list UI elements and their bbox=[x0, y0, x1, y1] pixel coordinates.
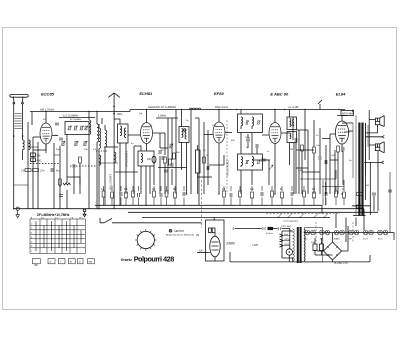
trimmer TRIM1 bbox=[68, 126, 72, 130]
junction node J13 bbox=[88, 111, 89, 112]
heater HEATER7 bbox=[349, 230, 354, 235]
svg-text:200V 4,2mA: 200V 4,2mA bbox=[215, 106, 229, 109]
trimmer TRIM4 bbox=[84, 126, 88, 130]
svg-text:4Ω: 4Ω bbox=[366, 185, 369, 187]
resistor mid1 bbox=[169, 159, 172, 165]
wire bbox=[74, 163, 80, 194]
capacitor CAPV5 bbox=[319, 156, 321, 160]
wire bbox=[197, 176, 212, 178]
capacitor left mid bbox=[73, 164, 75, 168]
junction node J10 bbox=[323, 217, 324, 218]
resistor RES2 bbox=[33, 169, 39, 172]
svg-text:230V BAT: 230V BAT bbox=[281, 225, 291, 228]
resistor RES21 bbox=[343, 192, 346, 198]
wire bbox=[209, 155, 224, 165]
svg-text:1M: 1M bbox=[196, 235, 199, 237]
psu enclosure box bbox=[305, 228, 323, 262]
svg-text:ECC: ECC bbox=[378, 239, 383, 241]
circled note bbox=[169, 230, 172, 233]
svg-text:EM80: EM80 bbox=[227, 242, 236, 246]
capacitor CAPV6 bbox=[325, 160, 327, 164]
dial circle bbox=[137, 231, 154, 248]
wire bbox=[54, 154, 60, 156]
resistor RES1 bbox=[25, 169, 31, 172]
heater HEATER1 bbox=[305, 230, 310, 235]
tube ECC85 bbox=[40, 123, 52, 144]
svg-text:250p: 250p bbox=[245, 137, 251, 139]
resistor RES3 bbox=[164, 157, 167, 163]
trimmer TRIM10 bbox=[257, 160, 260, 164]
output transformer primary winding bbox=[353, 115, 356, 215]
coil ant b bbox=[29, 140, 31, 150]
capacitor mid2 bbox=[164, 170, 168, 172]
junction node J23 bbox=[145, 205, 146, 206]
antenna coupling winding bbox=[15, 114, 22, 129]
resistor RES12 bbox=[174, 192, 177, 198]
resistor left mid bbox=[79, 157, 82, 163]
resistor RES9 bbox=[132, 191, 135, 197]
resistor RES8 bbox=[125, 192, 128, 198]
capacitor CAPV4 bbox=[207, 166, 209, 170]
junction node J14 bbox=[96, 111, 97, 112]
resistor RES6 bbox=[313, 147, 316, 153]
svg-text:AM 1,70mA: AM 1,70mA bbox=[40, 108, 54, 112]
wire out grid bbox=[300, 170, 344, 187]
resistor RES15 bbox=[251, 192, 254, 198]
speaker 2 bbox=[375, 144, 379, 151]
resistor chain middle with labels bbox=[102, 191, 105, 197]
capacitor CAPV8 bbox=[120, 192, 122, 196]
resistor RES5 bbox=[301, 145, 304, 151]
power transformer left winding bbox=[293, 229, 295, 261]
svg-text:ECH: ECH bbox=[363, 239, 368, 241]
wire bbox=[67, 177, 80, 194]
coil FM feed bbox=[114, 152, 116, 163]
oscillator box bbox=[138, 151, 154, 166]
switch bank bbox=[266, 213, 340, 215]
wire bbox=[14, 184, 28, 186]
wire bbox=[160, 147, 168, 149]
svg-text:Abgleichpunkt bei Mittelwelle: Abgleichpunkt bei Mittelwelle bbox=[166, 233, 195, 236]
svg-text:Polpourri 428: Polpourri 428 bbox=[134, 255, 175, 264]
capacitor CAPV7 bbox=[342, 147, 344, 151]
capacitor det b bbox=[256, 144, 258, 148]
capacitor CAPV9 bbox=[138, 193, 140, 197]
capacitor CAPH2 bbox=[59, 138, 63, 140]
heater HEATER12 bbox=[383, 230, 388, 235]
wire bbox=[330, 159, 338, 161]
IF can 4 bbox=[287, 117, 297, 130]
IF can 2 bbox=[179, 127, 189, 143]
capacitor det a bbox=[246, 139, 250, 141]
motor jack circle bbox=[286, 249, 292, 255]
trimmer TRIM3 bbox=[80, 126, 84, 130]
junction node J15 bbox=[45, 111, 46, 112]
bridge rectifier bbox=[324, 242, 342, 260]
junction node J24 bbox=[186, 193, 187, 194]
junction node J1 bbox=[146, 109, 147, 110]
choke coil on bus bbox=[190, 108, 201, 109]
svg-text:EL84: EL84 bbox=[336, 92, 346, 97]
capacitor CAPV11 bbox=[183, 192, 185, 196]
trimmer TRIM5 bbox=[74, 141, 78, 145]
trimmer TRIM8 bbox=[257, 121, 260, 125]
wire bus y205.3 bbox=[95, 204, 370, 207]
connector arrow 2 bbox=[364, 161, 384, 164]
component row drops bbox=[104, 197, 345, 205]
wire bbox=[262, 159, 270, 161]
coil ant a bbox=[23, 140, 25, 160]
svg-text:1M: 1M bbox=[152, 189, 155, 191]
svg-text:AMC: AMC bbox=[37, 160, 42, 163]
resistor RES13 bbox=[223, 191, 226, 197]
capacitor CAPV14 bbox=[291, 192, 293, 196]
svg-text:4m: 4m bbox=[56, 170, 59, 173]
junction node J18 bbox=[284, 109, 285, 110]
ground arrow near caption bbox=[83, 209, 86, 212]
cathode RC EL84 bbox=[337, 146, 340, 152]
resistor RES19 bbox=[313, 192, 316, 198]
svg-text:ECH81: ECH81 bbox=[139, 91, 153, 96]
heater HEATER11 bbox=[378, 230, 383, 235]
detector diode bbox=[262, 158, 265, 162]
wire bus y208.7 bbox=[13, 208, 364, 210]
diode symbols right of EABC80 bbox=[295, 138, 297, 142]
voltage selector chevrons bbox=[280, 234, 283, 247]
section divider dashed bbox=[201, 180, 203, 228]
small coil mid-left bbox=[63, 183, 71, 185]
fuse bbox=[268, 227, 274, 230]
tube ECH81 bbox=[141, 123, 153, 144]
capacitor CAPV13 bbox=[261, 192, 263, 196]
boxed label NFC bbox=[341, 111, 354, 116]
capacitor mid1 bbox=[162, 156, 164, 160]
svg-text:Tastenaggregat: Tastenaggregat bbox=[283, 220, 298, 223]
output transformer secondary bbox=[366, 123, 369, 175]
IF can 1 bbox=[118, 124, 129, 143]
junction node J3 bbox=[274, 109, 275, 110]
junction node J21 bbox=[98, 208, 99, 209]
component cluster boxes left bbox=[31, 153, 36, 156]
svg-text:17m: 17m bbox=[40, 170, 45, 173]
svg-text:Graetz: Graetz bbox=[121, 258, 132, 262]
capacitor CAPV3 bbox=[171, 163, 173, 167]
capacitor CAPV2 bbox=[159, 150, 161, 154]
resistor RES17 bbox=[281, 192, 284, 198]
heater HEATER8 bbox=[354, 230, 359, 235]
capacitor CAPV10 bbox=[160, 193, 162, 197]
ground terminal left bbox=[16, 207, 20, 218]
section divider dashes psu bbox=[316, 222, 353, 242]
svg-text:100n: 100n bbox=[117, 112, 123, 116]
svg-text:Si-Sich: Si-Sich bbox=[266, 233, 274, 235]
wire bbox=[99, 162, 118, 164]
wire antenna down bbox=[14, 136, 23, 209]
small caps top area bbox=[55, 123, 59, 125]
junction node J11 bbox=[304, 109, 305, 110]
main bus mid y109.5 bbox=[114, 110, 345, 112]
wire bbox=[158, 166, 187, 168]
heater HEATER10 bbox=[369, 230, 374, 235]
svg-text:NFC464: NFC464 bbox=[342, 112, 354, 116]
left block verticals bbox=[28, 122, 67, 209]
speaker 1 bbox=[375, 118, 379, 125]
junction node J7 bbox=[287, 217, 288, 218]
wire bbox=[33, 144, 46, 150]
connector arrow 1 bbox=[366, 135, 385, 138]
right side verticals psu bbox=[322, 205, 364, 242]
svg-text:ww: ww bbox=[89, 261, 93, 264]
resistor out2 box bbox=[356, 205, 363, 208]
resistor RES10 bbox=[153, 191, 156, 197]
heater chain bbox=[304, 233, 394, 241]
wire second bus bbox=[59, 117, 95, 119]
power transformer core bbox=[297, 227, 299, 263]
svg-text:ECC85: ECC85 bbox=[41, 92, 55, 97]
mains input line bbox=[235, 228, 263, 230]
capacitor CAPV12 bbox=[230, 193, 232, 197]
resistor RES4 bbox=[203, 157, 206, 163]
junction node J20 bbox=[13, 208, 14, 209]
quartz filter box bbox=[196, 150, 201, 173]
capacitor CAPV15 bbox=[325, 192, 327, 196]
junction node J8 bbox=[299, 217, 300, 218]
output transformer core bars bbox=[358, 123, 360, 216]
svg-text:E ABC 80: E ABC 80 bbox=[270, 92, 289, 97]
FM dipole arrow bbox=[108, 93, 120, 114]
pot arrow bbox=[269, 165, 273, 170]
tube EL84 bbox=[335, 121, 348, 144]
svg-text:295V: 295V bbox=[345, 130, 351, 134]
trimmer TRIM2 bbox=[74, 126, 78, 130]
junction node J27 bbox=[341, 193, 342, 194]
svg-text:EABC: EABC bbox=[334, 238, 340, 241]
tube EF89 bbox=[213, 122, 225, 143]
osc coil column left bbox=[89, 112, 91, 209]
trimmer TRIM7 bbox=[245, 121, 248, 125]
extra density wires bbox=[191, 110, 335, 206]
band switch dashes bbox=[30, 163, 60, 165]
right edge vertical bbox=[389, 172, 391, 233]
EM80 internal resistors bbox=[209, 228, 212, 233]
junction node J25 bbox=[218, 193, 219, 194]
resistor RES14 bbox=[239, 191, 242, 197]
resistor RES18 bbox=[303, 191, 306, 197]
heater HEATER4 bbox=[325, 230, 330, 235]
svg-text:1,8kHz: 1,8kHz bbox=[158, 114, 167, 118]
heater HEATER6 bbox=[340, 230, 345, 235]
junction node J5 bbox=[289, 251, 291, 253]
wire bbox=[296, 167, 308, 169]
capacitor CAPH1 bbox=[388, 190, 392, 192]
resistor RES20 bbox=[335, 191, 338, 197]
junction node J16 bbox=[181, 109, 182, 110]
bus 1.8k bbox=[156, 117, 178, 119]
junction node J19 bbox=[194, 109, 195, 110]
svg-text:LSP: LSP bbox=[252, 243, 258, 247]
svg-text:ZF=460kHz+10,7MHz: ZF=460kHz+10,7MHz bbox=[37, 213, 70, 217]
resistor left low bbox=[59, 179, 62, 185]
wire bus y217.5 bbox=[142, 217, 330, 219]
electrolytic caps psu bbox=[313, 244, 317, 251]
trimmer pair below bbox=[61, 141, 65, 145]
junction node J9 bbox=[313, 217, 314, 218]
FM tuner trimmer box bbox=[65, 122, 89, 135]
junction node J17 bbox=[236, 109, 237, 110]
svg-text:B 250 C75: B 250 C75 bbox=[335, 261, 349, 265]
junction node J12 bbox=[190, 109, 191, 110]
ZF alignment table bbox=[30, 216, 85, 253]
svg-text:2M: 2M bbox=[290, 149, 293, 151]
heater HEATER5 bbox=[334, 230, 339, 235]
psu bottom line bbox=[230, 252, 370, 262]
junction node J6 bbox=[277, 217, 278, 218]
wire bbox=[115, 171, 138, 173]
wire bus y212.3 bbox=[128, 211, 378, 213]
heater HEATER9 bbox=[363, 230, 368, 235]
svg-text:6,2-12,8MHz: 6,2-12,8MHz bbox=[63, 113, 79, 117]
junction node J22 bbox=[119, 205, 120, 206]
resistor out1 bbox=[357, 193, 363, 196]
resistor RES11 bbox=[165, 191, 168, 197]
resistor mid2 bbox=[173, 153, 176, 159]
heater HEATER3 bbox=[320, 230, 325, 235]
junction node J2 bbox=[218, 109, 219, 110]
wire bbox=[104, 146, 118, 148]
junction node J4 bbox=[338, 109, 339, 110]
IF transformer box lower bbox=[238, 154, 263, 170]
svg-text:EF89: EF89 bbox=[214, 91, 224, 96]
capacitor out1 bbox=[372, 193, 376, 195]
svg-text:+A +L+B2: +A +L+B2 bbox=[288, 106, 299, 109]
table footer boxes bbox=[32, 259, 94, 267]
junction node J26 bbox=[274, 193, 275, 194]
wire top bus AM bbox=[30, 111, 114, 113]
svg-text:GEGKOP. 10,7+45MHz: GEGKOP. 10,7+45MHz bbox=[148, 105, 177, 109]
mid components between ECH81 and EF89 bbox=[160, 110, 176, 195]
trimmer mid bbox=[169, 144, 173, 148]
svg-text:LSPh: LSPh bbox=[284, 239, 290, 241]
antenna AM-FM bbox=[10, 94, 28, 97]
svg-text:GEHÖRT: GEHÖRT bbox=[174, 230, 185, 233]
bundle verticals bbox=[323, 180, 326, 205]
IF transformer box upper bbox=[238, 114, 263, 133]
AM coil assembly bbox=[99, 124, 101, 178]
heater HEATER2 bbox=[311, 230, 316, 235]
trimmer TRIM9 bbox=[245, 160, 248, 164]
magic eye EM80 box bbox=[206, 220, 225, 261]
capacitor left low bbox=[59, 195, 63, 197]
trimmer TRIM6 bbox=[83, 141, 87, 145]
junction circle bbox=[184, 129, 186, 131]
svg-text:87-100MHz: 87-100MHz bbox=[70, 119, 81, 121]
volume pot switch line bbox=[100, 219, 202, 223]
capacitor CAPV1 bbox=[51, 168, 53, 172]
resistor RES7 bbox=[111, 192, 114, 198]
tube EABC80 bbox=[269, 123, 281, 144]
power transformer right winding bbox=[304, 229, 306, 261]
resistor RES16 bbox=[271, 191, 274, 197]
tube EM80 bbox=[210, 236, 220, 257]
wire bbox=[28, 146, 38, 148]
